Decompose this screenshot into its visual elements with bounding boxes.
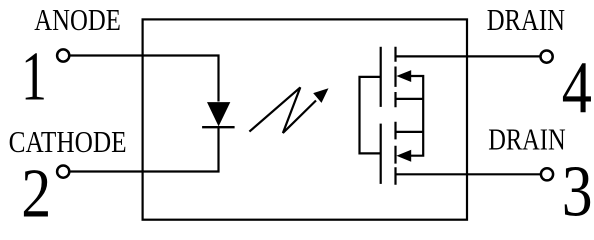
LED D1 triangle: [207, 102, 230, 126]
svg-text:1: 1: [21, 39, 47, 115]
svg-text:2: 2: [21, 155, 51, 231]
transistor Q2 body arrow: [396, 150, 411, 162]
wire: pin 1 to LED anode: [70, 56, 218, 102]
wire: LED cathode to pin 2: [70, 128, 218, 172]
transistor Q2 gate plate: [380, 124, 382, 184]
svg-text:ANODE: ANODE: [34, 4, 121, 38]
svg-text:4: 4: [562, 46, 592, 128]
wire: bottom MOSFET drain to pin 3: [395, 173, 541, 175]
wire: top MOSFET drain to pin 4: [395, 55, 540, 57]
transistor Q1 channel dashes: [394, 47, 396, 107]
wire: common gate bracket: [360, 77, 381, 153]
package outline box: [143, 19, 467, 219]
LED D1 cathode bar: [202, 126, 235, 128]
svg-text:3: 3: [562, 150, 593, 231]
pin 1 terminal circle: [57, 49, 69, 61]
transistor Q1 gate plate: [380, 47, 382, 107]
light emission zigzag arrow: [249, 87, 316, 133]
light arrow head: [313, 88, 328, 103]
transistor Q1 body arrow: [396, 70, 411, 82]
wire: common source/body loop: [395, 76, 424, 156]
pin 3 terminal circle: [541, 168, 553, 180]
svg-text:DRAIN: DRAIN: [487, 4, 565, 38]
svg-text:DRAIN: DRAIN: [488, 123, 565, 157]
pin 2 terminal circle: [57, 166, 69, 178]
pin 4 terminal circle: [541, 51, 553, 63]
transistor Q2 channel dashes: [394, 122, 396, 185]
